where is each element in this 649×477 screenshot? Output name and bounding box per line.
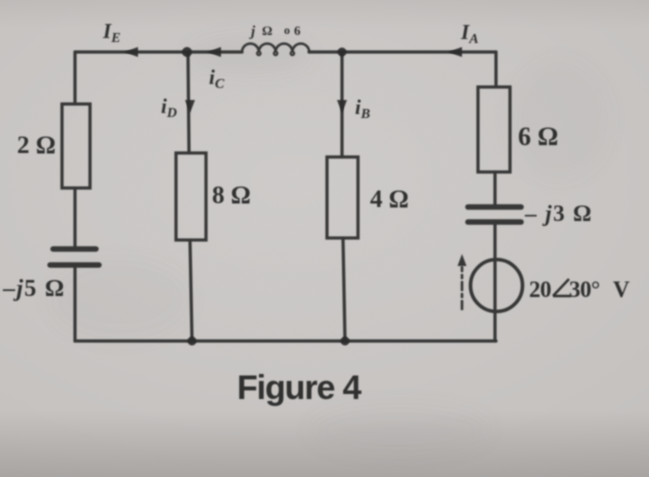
svg-text:– j3 Ω: – j3 Ω: [524, 201, 593, 226]
svg-text:6 Ω: 6 Ω: [518, 122, 558, 151]
svg-text:2 Ω: 2 Ω: [17, 132, 56, 159]
svg-text:8 Ω: 8 Ω: [212, 182, 251, 209]
svg-text:30°: 30°: [569, 277, 600, 302]
svg-text:–j5 Ω: –j5 Ω: [2, 276, 65, 302]
svg-text:o: o: [284, 23, 290, 37]
svg-text:6: 6: [294, 23, 301, 38]
svg-text:j: j: [249, 24, 256, 40]
svg-text:Ω: Ω: [262, 23, 272, 38]
svg-text:20: 20: [529, 277, 551, 302]
svg-text:Figure 4: Figure 4: [237, 369, 362, 407]
svg-text:V: V: [613, 277, 630, 302]
svg-text:4 Ω: 4 Ω: [370, 186, 409, 213]
